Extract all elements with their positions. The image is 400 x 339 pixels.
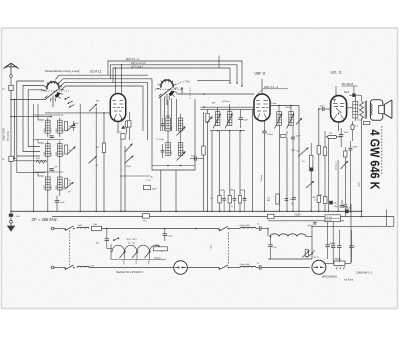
svg-text:1kΩ: 1kΩ [36, 158, 40, 160]
capacitor 1uF mains [106, 229, 108, 239]
tube U1 UCH11 envelope [110, 94, 125, 122]
tube U3 pins [333, 121, 335, 123]
wire U3 right to transformer [347, 107, 353, 109]
wire rail y160.8 [14, 160, 46, 162]
coil heater dropper 1 [240, 227, 256, 228]
svg-text:100: 100 [334, 203, 337, 205]
coil mains choke 2 [77, 266, 89, 267]
wire S2 drops [160, 98, 162, 132]
svg-text:0,1μF: 0,1μF [357, 119, 363, 121]
dashed lead to TA [176, 82, 183, 85]
wire antenna lead-in [10, 77, 12, 85]
wire bandfilter bottom bar [152, 165, 195, 167]
resistor 100 Ohm [154, 247, 168, 251]
arrow tuning BF1 [177, 127, 186, 136]
capacitor 0,1uF output [363, 122, 369, 125]
contact TA switch S1a [65, 97, 70, 99]
capacitor 3nF to ground [10, 211, 12, 213]
svg-text:Beleuchtg.: Beleuchtg. [7, 130, 10, 141]
svg-text:70pF: 70pF [243, 120, 248, 122]
capacitor 68pF mid [348, 147, 352, 149]
wire U1 bottom [117, 122, 119, 134]
tube U1 grid dashes [113, 100, 117, 102]
resistor row R23 [238, 196, 241, 204]
resistor pill IF2 [280, 135, 286, 138]
svg-text:110V: 110V [123, 259, 125, 264]
resistor 48k [317, 196, 320, 203]
resistor pill 1M horizontal [328, 135, 337, 138]
resistor 1k ohm padder [36, 160, 47, 163]
wire horizontal y99.5 [11, 99, 46, 101]
wire main bus y211.3 [11, 210, 362, 212]
wire band loop middle [23, 86, 44, 152]
output transformer primary winding [353, 102, 358, 119]
coil BF1b [178, 118, 183, 131]
svg-text:UCL 11: UCL 11 [331, 71, 342, 75]
svg-text:50pF: 50pF [152, 189, 157, 191]
switch power S3b [219, 226, 228, 231]
terminal mains N [51, 266, 54, 269]
wire tick above bus [218, 56, 220, 69]
svg-text:2+2μF: 2+2μF [330, 243, 337, 245]
svg-text:49V,L 26V,L: 49V,L 26V,L [127, 239, 138, 241]
svg-text:MW 3,5→A: MW 3,5→A [126, 57, 140, 61]
svg-text:0,1: 0,1 [210, 198, 213, 200]
svg-text:2μ: 2μ [257, 263, 259, 265]
capacitor 2uF x327.7 [327, 221, 329, 245]
output transformer secondary zigzag [360, 102, 364, 119]
svg-text:50μF: 50μF [296, 136, 302, 138]
coil BF2b [178, 143, 183, 156]
trimmer 2-10pF [65, 182, 74, 190]
svg-text:100k: 100k [51, 186, 53, 190]
svg-text:mit Funk: mit Funk [344, 279, 354, 282]
svg-text:ZF = 468 kHz.: ZF = 468 kHz. [31, 217, 58, 222]
svg-text:125V: 125V [136, 259, 138, 264]
tube U2 legs [258, 114, 261, 119]
svg-text:50mA: 50mA [335, 258, 342, 261]
rotary band switch S1 [41, 81, 69, 107]
IF transformer 1 coil b [227, 112, 232, 126]
svg-text:100k: 100k [51, 152, 53, 156]
voltage tap arrows [120, 251, 126, 258]
svg-text:4 GW 646 K: 4 GW 646 K [368, 130, 383, 191]
resistor 0,3M [310, 143, 312, 155]
switch power S3c [65, 265, 74, 270]
svg-text:150pF 2000: 150pF 2000 [3, 128, 6, 141]
svg-text:2M: 2M [96, 147, 99, 149]
tube U1 cathode legs [114, 114, 117, 119]
capacitor 50pF antenna series [9, 85, 13, 90]
wire selector bottom [111, 259, 166, 261]
svg-text:30: 30 [151, 177, 153, 179]
svg-text:4Ω 6Ω: 4Ω 6Ω [128, 242, 135, 244]
svg-text:220V: 220V [148, 259, 150, 264]
svg-text:68pF: 68pF [353, 147, 358, 149]
capacitor electrolytic below 0,3M [309, 168, 313, 172]
trimmer arrow tone [306, 181, 314, 188]
capacitor row C23 [243, 197, 247, 199]
resistor R-osc1 [65, 122, 68, 131]
wire horizontal y116.6 [11, 116, 51, 118]
wire row2 segment [228, 267, 240, 269]
tube U3 UCL11 envelope [331, 96, 347, 122]
capacitor 2+2uF a [332, 222, 334, 246]
svg-text:400: 400 [290, 199, 293, 201]
arrows heater indicator [336, 267, 344, 270]
speaker cone [384, 100, 392, 118]
coil L1a [46, 120, 51, 133]
coil BF2a [166, 143, 171, 156]
IF transformer 2 coil a [277, 112, 282, 126]
bandfilter wrap wires [152, 99, 195, 170]
potentiometer arrow 1 [125, 144, 133, 153]
wire row1 to right [102, 228, 220, 230]
wire selector left edge [110, 244, 112, 260]
arrow tuning BF2 [177, 152, 186, 161]
output transformer core [364, 101, 366, 119]
svg-text:25,2Ω: 25,2Ω [326, 217, 332, 219]
svg-text:3800Ω|2800Ω: 3800Ω|2800Ω [322, 276, 338, 279]
svg-text:100k: 100k [51, 129, 53, 133]
resistor box 25,2 50,2 [325, 215, 340, 222]
trimmer arrow L1 [67, 123, 76, 131]
wire transformer top [354, 95, 356, 101]
rotary band switch S2 [155, 79, 183, 105]
resistor on antenna line [9, 156, 13, 161]
svg-text:+115V: +115V [294, 214, 301, 217]
svg-text:1M: 1M [319, 194, 322, 196]
capacitor blob 100u [329, 201, 333, 205]
trimmer arrow above barretter [307, 253, 314, 258]
IF2 tuning arrows [275, 114, 283, 129]
trimmer arrow siebkette [302, 251, 310, 258]
oscillator group L1 wires [34, 114, 64, 116]
capacitor 2nF row1 [258, 226, 260, 231]
capacitor 100uF det [292, 197, 296, 199]
tube U2 UBF11 envelope [254, 94, 270, 121]
wire chassis bus y216.5 [52, 216, 394, 218]
wire x338 column [337, 160, 339, 211]
resistor tapped chain big bumps [112, 245, 162, 252]
svg-text:Telefon: Telefon [261, 174, 263, 182]
capacitor 2nF horizontal [194, 156, 196, 161]
capacitor row C21 [222, 197, 226, 199]
svg-text:Tastenabstimmung ‚Lang’: Tastenabstimmung ‚Lang’ [45, 69, 80, 73]
tube U3 internals [334, 99, 336, 103]
wire resistor right up [345, 262, 351, 264]
svg-text:Lfstr.: Lfstr. [210, 244, 213, 249]
coil mains choke 1 [77, 227, 89, 228]
capacitor C-det [285, 198, 289, 200]
svg-text:100Ω: 100Ω [358, 182, 360, 187]
svg-text:Netzteil für 125/220 V: Netzteil für 125/220 V [116, 270, 144, 274]
coil L3b [58, 177, 63, 190]
wire pot drops [120, 139, 122, 211]
wire U3 left drop [319, 108, 322, 110]
node siebkette in [267, 228, 269, 230]
svg-text:25μF: 25μF [334, 206, 339, 208]
wire line y220.8 [268, 220, 344, 222]
antenna [4, 63, 19, 77]
trimmer arrow L2 [67, 147, 76, 155]
fuse Si in chassis bus [267, 214, 274, 218]
svg-text:2–15pF: 2–15pF [164, 116, 171, 118]
capacitor 5nF [49, 168, 53, 170]
switch selector top-left [114, 238, 119, 241]
capacitor electrolytic blob [345, 209, 348, 213]
capacitor 50pF bandfilter [144, 185, 151, 189]
capacitor trimmer osc1 [72, 125, 76, 127]
switch power S3d [219, 265, 228, 270]
oscillator group L3 wires [34, 171, 64, 173]
wire band loop outer [17, 81, 44, 156]
resistor row R21 [218, 196, 221, 204]
trimmer IF1 [207, 117, 213, 124]
resistor row R22 [228, 196, 231, 204]
svg-text:P–1,5μF: P–1,5μF [157, 139, 165, 141]
trimmer IF2 [296, 118, 302, 125]
capacitor 1uF siebkette [270, 237, 272, 245]
trimmer arrow UCL grid [341, 161, 349, 169]
capacitor 25uF cathode [343, 204, 347, 206]
wire vertical x96.2 [95, 107, 97, 211]
transistor-like triangle marker [121, 125, 125, 128]
coil L1b [58, 120, 63, 133]
wire U2 left feeds [201, 106, 255, 108]
potentiometer cluster small rect [121, 134, 125, 140]
svg-text:100Ω: 100Ω [155, 245, 160, 247]
wire row1 segment [228, 228, 240, 230]
coil BF1a [166, 118, 171, 131]
svg-text:UCL11–2: UCL11–2 [335, 161, 337, 170]
svg-text:U/V 11: U/V 11 [313, 257, 319, 259]
svg-text:LW 2 und 3: LW 2 und 3 [131, 66, 144, 69]
svg-text:10nF: 10nF [344, 132, 349, 134]
svg-text:0,1A: 0,1A [90, 264, 95, 267]
capacitor 5uF inter-group [49, 135, 53, 137]
svg-text:3nF: 3nF [16, 216, 20, 218]
svg-text:200pF: 200pF [286, 107, 292, 109]
wire into U1 left [45, 112, 110, 114]
wire M1 right [187, 267, 219, 269]
fuse 7,5A [92, 226, 102, 230]
arrow pointer S2 [181, 87, 183, 94]
wire mains row1 [54, 228, 65, 230]
wire vertical x207.5 [207, 109, 209, 211]
trimmer arrow FB [89, 104, 97, 112]
svg-text:5000μΩ: 5000μΩ [154, 258, 161, 260]
fuse in bus [143, 214, 150, 218]
capacitor 0,1uF mains [164, 229, 166, 234]
IF transformer 2 coil b [289, 112, 294, 126]
output transformer voice coil [370, 104, 372, 116]
resistor 40u left of bandfilter [128, 112, 130, 121]
svg-text:( TA ): ( TA ) [184, 80, 191, 84]
svg-text:2x25mm: 2x25mm [222, 101, 230, 103]
resistor x325 column [324, 131, 326, 147]
svg-text:25μF: 25μF [344, 92, 350, 94]
dial lamp M1 [174, 261, 188, 275]
potentiometer volume arrow [298, 148, 309, 157]
wire row2 to motor [89, 267, 174, 269]
wire IF2 tops [270, 105, 299, 107]
speaker magnet [379, 105, 385, 113]
wire KW bus [111, 65, 238, 83]
resistor 4,7M [276, 194, 279, 204]
trimmer arrow right margin 4R [89, 156, 97, 163]
wire siebkette bottom [268, 258, 312, 260]
wire U3 top [335, 86, 337, 96]
wire rail y172.6 [17, 172, 46, 174]
resistor on x318.8 [317, 146, 320, 155]
svg-text:UBF 11: UBF 11 [255, 72, 266, 76]
node antenna tap [10, 99, 12, 101]
wire x104 with resistor [103, 113, 105, 143]
wire x328.5 column [328, 138, 330, 211]
svg-text:1M: 1M [329, 133, 332, 135]
wire line y226.3 right [312, 225, 394, 227]
IF1 tuning arrows [213, 114, 221, 129]
svg-text:2n: 2n [257, 224, 259, 226]
wire LW bus [113, 68, 230, 83]
capacitor BF1 left [161, 123, 165, 125]
resistor pill right of U1 [125, 121, 128, 128]
wire U2 top [261, 79, 263, 94]
resistor R-osc3 [65, 179, 68, 188]
wire left vertical x14.6 [14, 100, 16, 159]
svg-text:50,2Ω: 50,2Ω [326, 220, 332, 222]
wire S2 arm down [176, 99, 178, 131]
wire TA to right [197, 80, 230, 82]
svg-text:25mm: 25mm [271, 103, 277, 105]
wire mains row2 [54, 267, 65, 269]
speaker link dashed [381, 126, 383, 174]
capacitor BF2 left [161, 149, 165, 151]
svg-text:0,1μF: 0,1μF [167, 236, 173, 238]
svg-text:0,3: 0,3 [302, 161, 305, 163]
svg-text:40μ: 40μ [121, 118, 124, 120]
wire vertical x80.2 [79, 104, 81, 211]
coil L3a [46, 177, 51, 190]
svg-text:68μF: 68μF [346, 207, 351, 209]
capacitor 68pF bottom [340, 204, 344, 206]
switch link dashed row1-row2 left [68, 231, 70, 267]
speaker frame [370, 100, 382, 121]
resistor 50mA [334, 261, 345, 265]
capacitor 2+2uF b [338, 230, 340, 246]
coil heater dropper 2 [240, 266, 256, 267]
wire IF1 bottoms [210, 130, 245, 132]
svg-text:7,5A: 7,5A [93, 223, 98, 226]
voltage taps [124, 252, 126, 260]
wire band loop inner [28, 90, 43, 147]
svg-text:1k: 1k [69, 183, 71, 185]
svg-text:5k: 5k [2, 159, 4, 161]
resistor 1M x325 bottom [323, 197, 327, 204]
resistor mid x341 [344, 151, 347, 157]
capacitor 50uF [291, 136, 295, 138]
coil siebkette bumps [267, 229, 269, 237]
svg-text:1380Ω/AW 1–2: 1380Ω/AW 1–2 [356, 272, 373, 275]
capacitor 70pF [240, 109, 242, 117]
switch power S3a [65, 226, 74, 231]
capacitor 2uF right [351, 230, 353, 246]
svg-text:100pF: 100pF [267, 134, 273, 136]
svg-text:50pF: 50pF [60, 202, 65, 204]
wire antenna down to bus [10, 91, 12, 212]
wire IF2 drops [279, 126, 281, 212]
ground [10, 217, 12, 221]
resistor 25 on x207.5 [206, 114, 209, 123]
oscillator group L2 wires [34, 139, 64, 141]
capacitor 50pF osc [55, 200, 59, 202]
capacitor 2uF row2 [258, 265, 260, 270]
wire S2 to U2 [177, 93, 255, 95]
barretter M2 [312, 260, 326, 274]
capacitor 10nF [340, 128, 342, 134]
capacitor 100pF below U2 [264, 121, 266, 131]
IF transformer 1 coil a [215, 112, 220, 126]
svg-text:5n: 5n [231, 206, 233, 208]
coil L2b [58, 144, 63, 157]
wire MW bus top [108, 61, 242, 86]
resistor R-osc2 [65, 145, 68, 154]
svg-text:45k: 45k [297, 151, 300, 153]
svg-text:47kΩ: 47kΩ [126, 166, 131, 168]
wire M2 to resistor [324, 262, 334, 264]
wire IF1 drop columns [211, 131, 213, 212]
resistor pill 1,5k below U3 [351, 125, 354, 130]
tube U2 grid dashes [256, 100, 260, 102]
wire y176 lower link [120, 175, 150, 177]
wire osc box feeds [47, 162, 49, 175]
wire transformer bottom to bus [361, 118, 363, 216]
capacitor row C22 [233, 197, 237, 199]
terminal mains L [51, 227, 54, 230]
wire U3 bottom [338, 122, 340, 131]
wire U1 grid top leads [115, 68, 117, 95]
potentiometer arrow 47k [125, 156, 134, 164]
resistor 250 siebkette [305, 250, 308, 257]
coil L2a [46, 144, 51, 157]
svg-text:UCH 11: UCH 11 [90, 70, 101, 74]
wire mid vertical x203.5 with resistor [203, 112, 205, 146]
wire bandfilter drops to bus [160, 170, 162, 211]
switch link dashed row1-row2 right [227, 232, 229, 264]
